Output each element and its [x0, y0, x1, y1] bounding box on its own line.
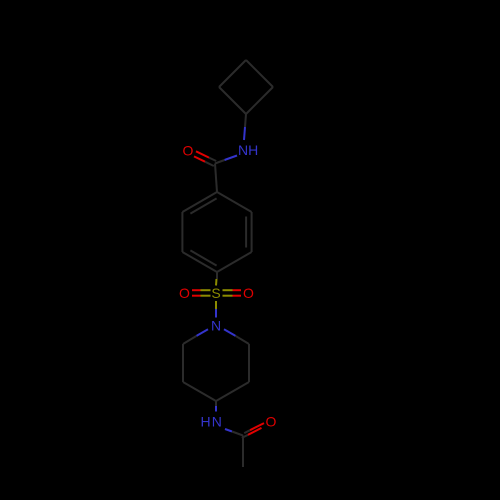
- S=O right double bond: [223, 289, 233, 291]
- bond piperidine C4 to acetamido N: [215, 401, 217, 406]
- benzene inner double-bond lines: [245, 217, 247, 248]
- acetyl C=O double bond: [244, 430, 250, 433]
- svg-text:O: O: [183, 143, 194, 159]
- svg-text:N: N: [212, 414, 222, 430]
- benzene ring: [182, 192, 251, 272]
- bond cyclobutyl to amide N: [245, 114, 246, 127]
- svg-text:N: N: [211, 318, 221, 334]
- svg-text:S: S: [211, 285, 220, 301]
- svg-text:O: O: [179, 285, 190, 301]
- bond benzene to sulfonyl S: [216, 272, 218, 279]
- svg-text:NH: NH: [238, 142, 258, 158]
- bond S to piperidine N: [215, 301, 217, 309]
- svg-text:H: H: [200, 414, 210, 430]
- cyclobutyl ring: [219, 60, 273, 114]
- bond acetamido N to acetyl C: [225, 429, 232, 432]
- svg-text:O: O: [266, 414, 277, 430]
- bond amide N to carbonyl C: [225, 156, 238, 161]
- bond carbonyl C to benzene ring: [215, 164, 217, 193]
- S=O left double bond: [201, 289, 211, 291]
- carbonyl C=O double bond: [209, 158, 216, 161]
- acetyl CH3 bond: [242, 436, 244, 468]
- svg-text:O: O: [243, 285, 254, 301]
- piperidine ring: [183, 329, 249, 401]
